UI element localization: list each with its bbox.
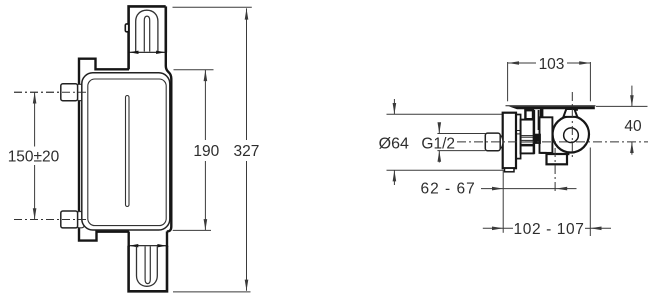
bottom handle arch outer: [137, 246, 158, 286]
back plate outline: [79, 59, 129, 241]
handle circle: [553, 116, 589, 152]
pipe axis dashed: [457, 141, 648, 143]
dashed centerline top nut overlay: [14, 91, 86, 93]
svg-text:102 - 107: 102 - 107: [514, 221, 585, 238]
dimension 190 witness bottom: [173, 229, 211, 231]
svg-text:150±20: 150±20: [8, 148, 60, 165]
body outer: [82, 73, 170, 230]
svg-text:Ø64: Ø64: [379, 136, 409, 153]
skirt left side: [127, 53, 130, 70]
shelf top line: [506, 105, 596, 107]
joint wedge left: [129, 51, 138, 54]
svg-text:62 - 67: 62 - 67: [420, 181, 475, 198]
mounting lug bottom: [77, 212, 84, 228]
dimension 327 witness top: [173, 6, 252, 8]
svg-text:190: 190: [193, 143, 219, 160]
dashed centerline bottom nut: [14, 219, 86, 221]
front layer line 2: [516, 133, 520, 135]
shelf bar: [509, 106, 595, 109]
handle hub circle: [564, 128, 579, 143]
shelf nub right of stem: [575, 109, 578, 111]
top handle joint line: [130, 51, 166, 53]
hex nut top: [61, 84, 78, 101]
top handle arch outer: [136, 10, 158, 51]
dimension 190 line: [204, 70, 206, 230]
dimension 40 line top: [631, 86, 633, 107]
dimension 62-67 line: [481, 188, 577, 190]
outlet step right: [567, 153, 569, 155]
dimension 102-107 line: [483, 227, 611, 229]
dimension 103 witness right: [589, 62, 591, 101]
svg-text:327: 327: [233, 143, 259, 160]
cap line 3: [521, 139, 534, 141]
valve section D: [540, 117, 553, 153]
outlet axis dashed: [554, 148, 556, 193]
dimension O64 witness bottom: [387, 169, 504, 171]
body slot: [126, 96, 130, 207]
dimension 103 line: [508, 62, 591, 64]
dimension 40 line bottom: [631, 142, 633, 155]
dimension 103 witness left: [507, 62, 509, 101]
bottom neck left: [127, 232, 129, 248]
valve boss dark block: [540, 109, 544, 120]
handle axis dashed: [571, 92, 573, 160]
cap line 4: [521, 141, 534, 143]
dashed centerline top nut: [14, 91, 86, 93]
bottom handle arch slot: [145, 246, 150, 283]
cap dark band: [521, 144, 533, 147]
cap line 2: [521, 136, 534, 138]
dashed centerline bottom nut overlay: [14, 219, 86, 221]
bottom joint wedge left: [129, 244, 138, 247]
handle stem: [563, 109, 577, 117]
hex nut bottom: [61, 211, 78, 228]
bottom handle box: [129, 246, 167, 291]
dimension G1/2 witness bottom: [437, 150, 485, 152]
top handle arch slot: [144, 16, 149, 51]
dimension 327 line: [246, 8, 248, 290]
top handle left tab: [125, 24, 128, 32]
svg-text:G1/2: G1/2: [421, 136, 455, 153]
mounting lug top: [77, 84, 84, 100]
O64 arrows: [393, 99, 395, 114]
arrow up 150: [33, 92, 37, 103]
top handle box: [129, 6, 166, 52]
body right thick edge: [166, 53, 172, 232]
inlet fitting: [500, 135, 503, 148]
bracket front layer: [516, 115, 521, 159]
dimension O64 witness top: [387, 113, 504, 115]
valve cap section A: [521, 120, 534, 154]
channel left wall: [533, 110, 535, 154]
svg-text:103: 103: [539, 56, 565, 73]
arrow down 150: [33, 208, 37, 219]
union nipple 1: [525, 110, 533, 119]
bottom handle joint line: [129, 245, 166, 247]
witness right circle line: [589, 148, 591, 237]
dimension G1/2 witness top: [437, 133, 485, 135]
channel right wall: [538, 110, 540, 130]
wall bracket: [503, 113, 516, 169]
body inner: [88, 79, 166, 226]
bracket foot: [505, 168, 515, 172]
valve dark block: [535, 134, 541, 144]
bottom neck right: [166, 231, 168, 247]
dimension 40 witness: [596, 105, 648, 107]
cap line 1: [521, 135, 534, 137]
bottom joint wedge right: [157, 244, 166, 247]
front layer line 1: [516, 130, 520, 132]
outlet step left: [540, 152, 546, 154]
dimension 150±20 line: [34, 92, 36, 219]
witness left wall line: [502, 170, 504, 233]
G1/2 arrows: [438, 125, 440, 134]
dimension 190 witness top: [174, 69, 214, 71]
dimension 327 witness bottom: [173, 291, 251, 293]
outlet tab: [547, 154, 568, 164]
svg-text:40: 40: [624, 118, 642, 135]
joint wedge right: [156, 51, 165, 54]
skirt right side: [165, 6, 168, 52]
